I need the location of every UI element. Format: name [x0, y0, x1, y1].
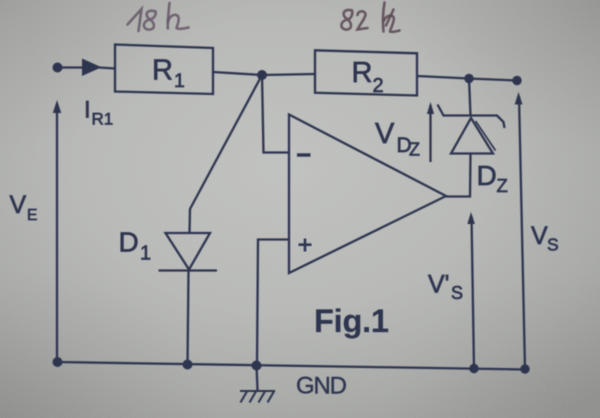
voltage arrow V_E line — [56, 104, 58, 362]
node: Vs top dot — [512, 76, 521, 85]
svg-text:E: E — [27, 207, 37, 224]
node: gnd stub dot — [252, 361, 262, 371]
op-amp U1 triangle — [289, 115, 446, 274]
arrowhead V_DZ — [427, 102, 434, 114]
op-amp inverting input minus sign — [297, 153, 311, 156]
voltage arrow V_DZ line — [429, 105, 431, 162]
node: Vs ground dot — [520, 364, 529, 373]
node: input dot — [53, 63, 63, 73]
node: zener top dot — [464, 74, 473, 83]
voltage arrow V_S line — [519, 96, 525, 369]
wire: input node to I_R1 arrow — [59, 66, 86, 68]
svg-text:Z: Z — [497, 175, 508, 196]
svg-text:R: R — [152, 55, 173, 87]
wire: R1 right pin to junction node — [213, 72, 262, 75]
svg-text:R: R — [352, 57, 373, 89]
ground rail — [57, 362, 525, 370]
arrowhead V_E — [53, 100, 61, 113]
svg-text:V: V — [531, 222, 548, 250]
svg-text:I: I — [84, 97, 91, 124]
svg-text:Fig.1: Fig.1 — [314, 303, 389, 339]
svg-text:D: D — [119, 227, 139, 258]
voltage arrow V'S line — [472, 216, 475, 369]
wire: zener top node to Vs node — [469, 79, 517, 81]
node: D1 ground dot — [183, 360, 193, 370]
ground symbol — [240, 391, 275, 403]
diode D1 cathode bar — [159, 269, 218, 271]
wire: zener top to top rail node — [469, 79, 471, 116]
svg-text:V: V — [10, 191, 27, 219]
resistor R1 body — [115, 45, 213, 95]
handwritten value 18k above R1 — [128, 3, 189, 31]
current arrow I_R1 head — [82, 59, 102, 77]
wire: arrow to R1 left pin — [99, 68, 115, 69]
svg-text:D: D — [477, 160, 497, 191]
zener diode DZ body — [451, 118, 493, 154]
zener DZ overdraw stroke — [476, 121, 496, 151]
svg-text:S: S — [547, 235, 559, 255]
svg-text:GND: GND — [296, 373, 347, 400]
svg-text:V': V' — [428, 271, 449, 299]
wire: R2 right pin to zener top node — [417, 76, 469, 79]
svg-text:Z: Z — [409, 140, 420, 160]
handwritten value 82k above R2 — [341, 3, 399, 32]
svg-text:1: 1 — [140, 243, 151, 265]
wire: junction down to inverting input — [262, 75, 289, 153]
node: junction dot — [257, 70, 267, 80]
wire: junction diagonal down to D1 anode — [190, 75, 263, 233]
svg-text:2: 2 — [373, 75, 384, 97]
wire: junction to R2 left pin — [262, 74, 315, 75]
wire: op-amp output to zener bottom — [446, 154, 471, 197]
resistor R2 body — [315, 50, 417, 95]
arrowhead V'S — [467, 212, 475, 224]
zener DZ cathode bar with hooks — [438, 105, 505, 129]
wire: non-inverting input to ground rail — [257, 240, 289, 366]
wire: D1 cathode to ground rail — [188, 271, 189, 364]
svg-text:R1: R1 — [92, 110, 114, 129]
svg-text:1: 1 — [174, 70, 185, 92]
node: ground rail left dot — [53, 357, 63, 367]
svg-text:V: V — [375, 118, 395, 150]
node: V'S ground dot — [469, 364, 478, 373]
op-amp non-inverting input plus sign — [299, 239, 312, 252]
diode D1 body — [166, 233, 211, 270]
ground stub — [257, 366, 258, 391]
svg-text:S: S — [451, 283, 463, 303]
arrowhead V_S — [515, 92, 523, 105]
